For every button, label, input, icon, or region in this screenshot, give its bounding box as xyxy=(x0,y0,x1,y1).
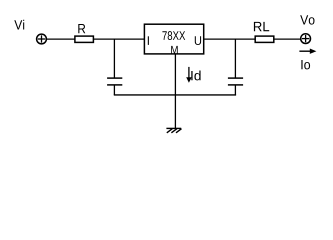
terminal Vo (output circle with plus) xyxy=(301,34,311,44)
wire R to regulator input through node A xyxy=(93,38,144,40)
capacitor C1 xyxy=(107,78,122,95)
ground xyxy=(166,128,181,132)
wire node A drop to capacitor C1 xyxy=(113,39,115,79)
regulator U1 78XX xyxy=(144,24,203,54)
current arrow Id xyxy=(186,67,200,83)
wire regulator pin M down to ground xyxy=(174,54,176,128)
terminal Vi (input source circle with plus) xyxy=(37,34,47,44)
label Vo xyxy=(300,15,314,24)
capacitor C2 xyxy=(228,78,243,95)
wire regulator output to terminal Vo through node B xyxy=(204,38,301,40)
wire Vi terminal to resistor R xyxy=(46,38,75,40)
resistor RL xyxy=(254,22,274,42)
wire node B drop to capacitor C2 xyxy=(234,39,236,79)
wire bottom rail xyxy=(114,94,236,96)
current arrow Io xyxy=(299,49,316,70)
label Vi xyxy=(14,20,24,30)
resistor R xyxy=(75,24,94,42)
